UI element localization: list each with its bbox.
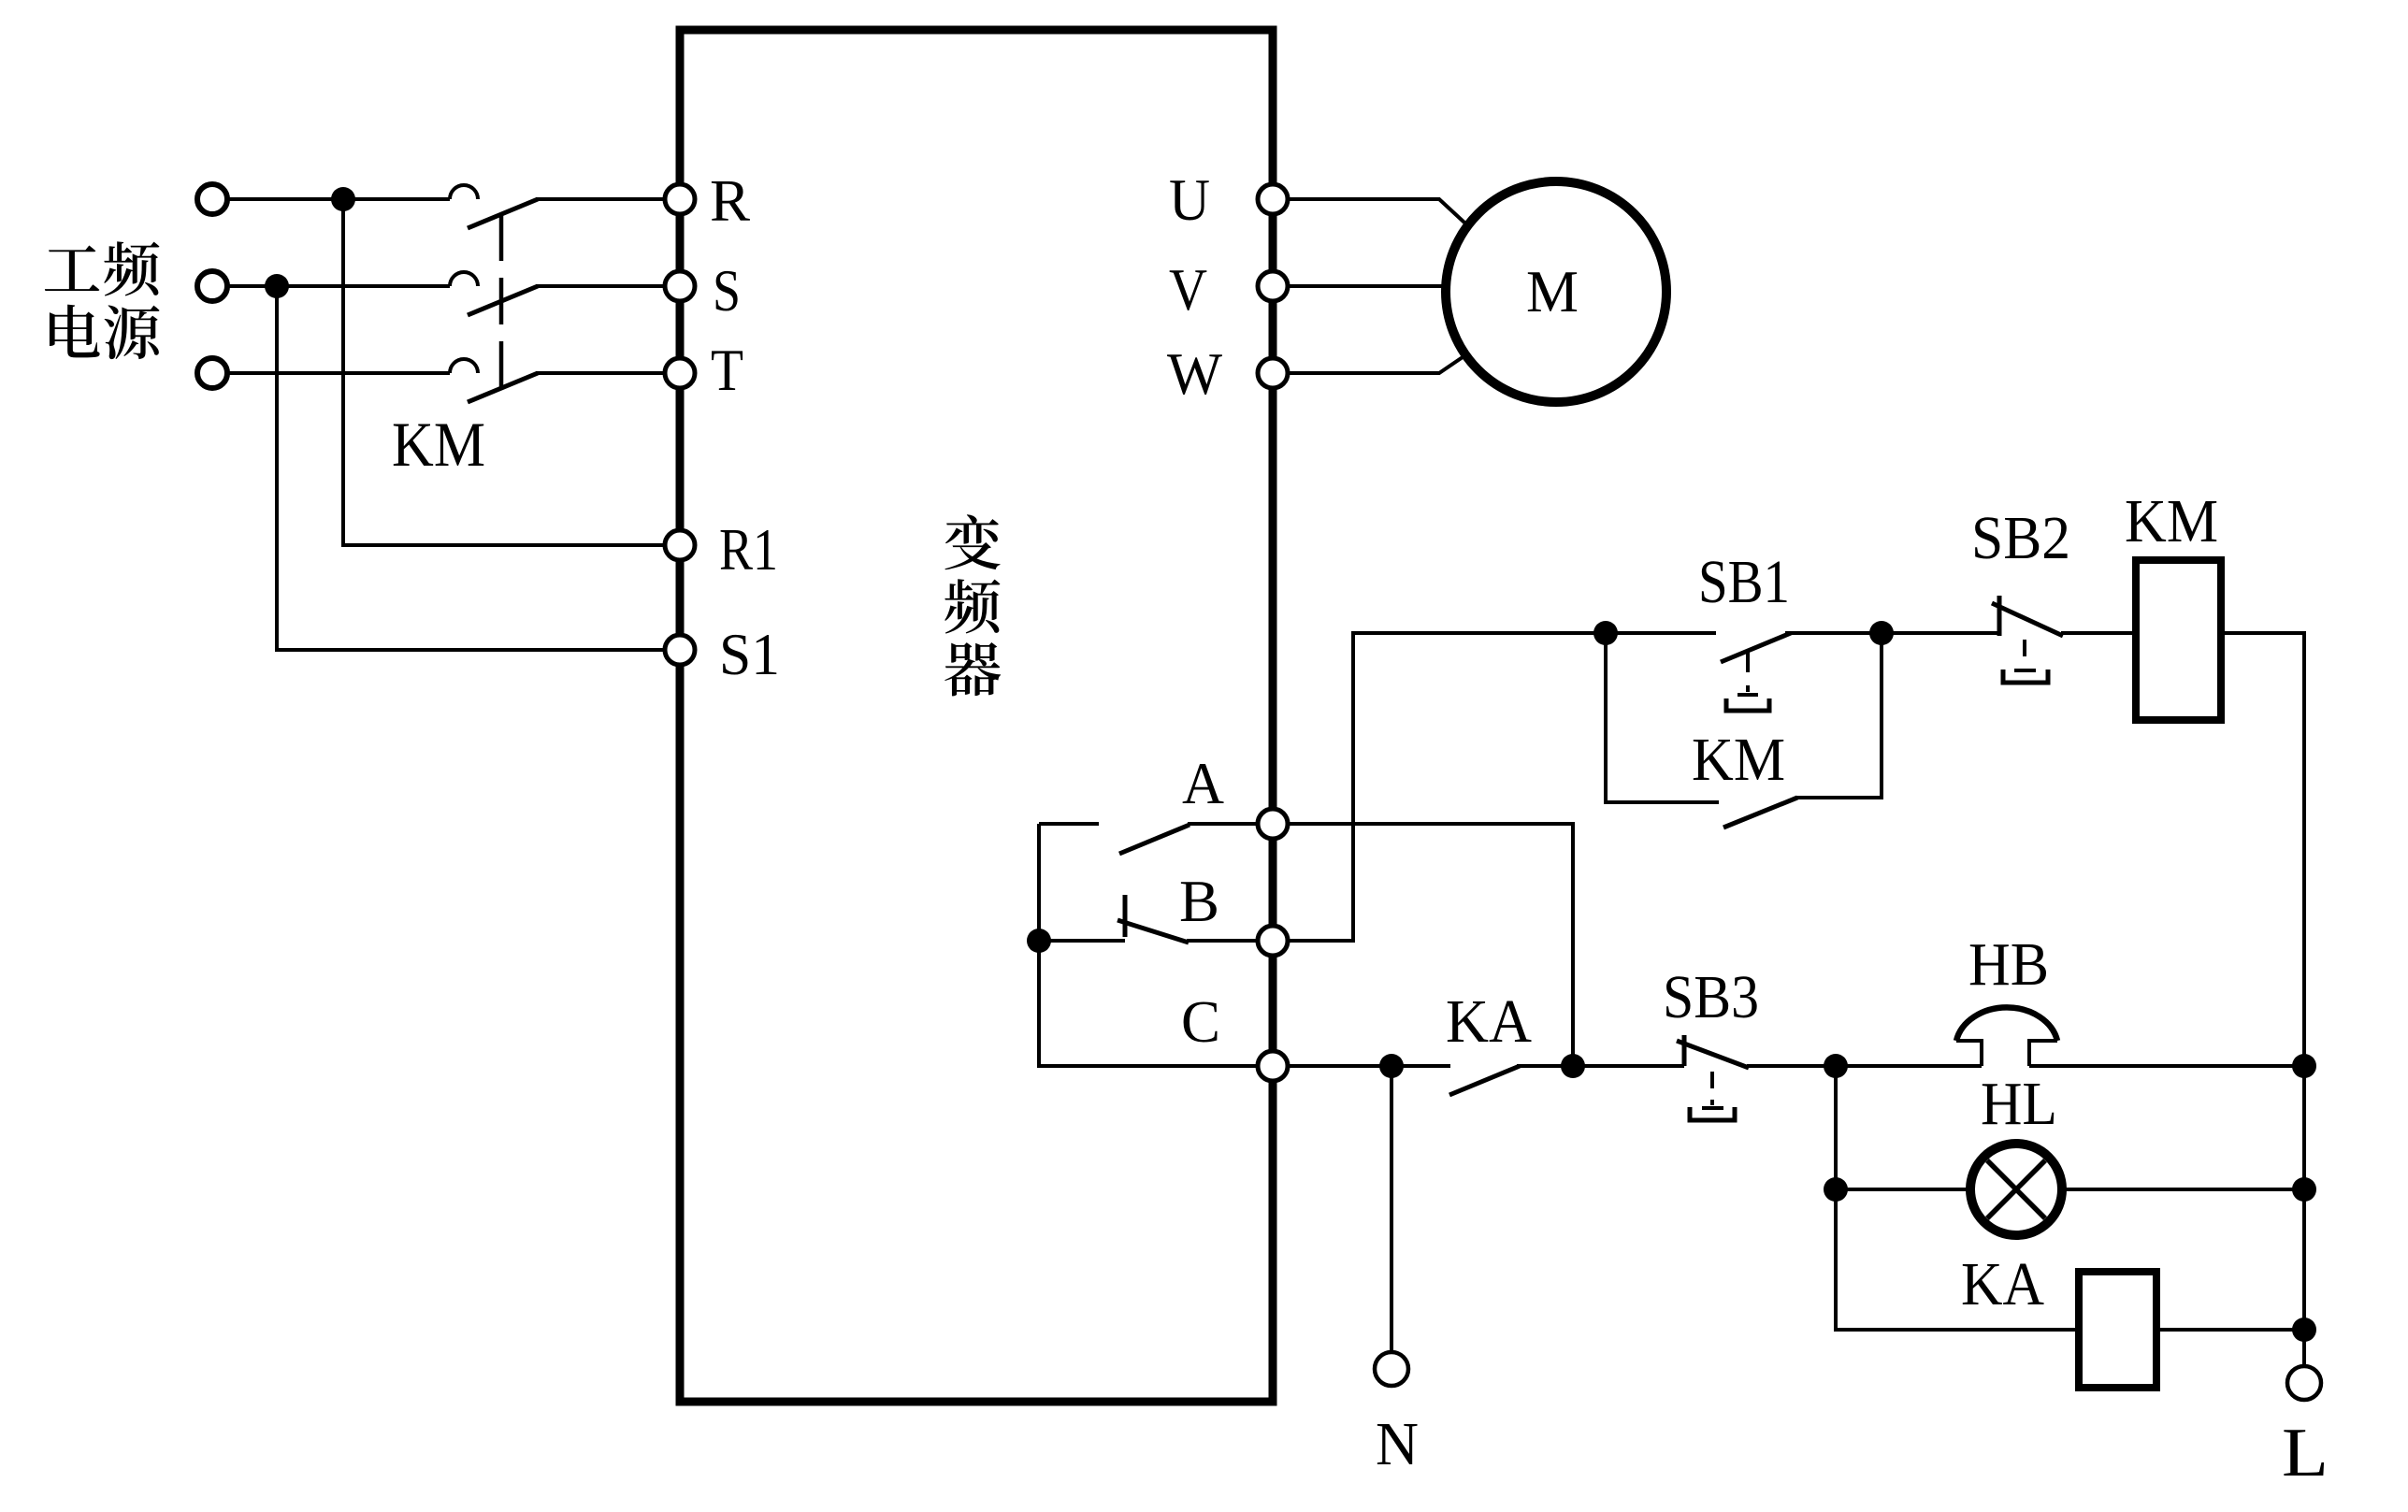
- svg-text:HL: HL: [1981, 1070, 2057, 1138]
- wire lamp to right rail: [2062, 1188, 2304, 1191]
- wire KA node to SB3: [1573, 1064, 1684, 1068]
- wire bell to right rail: [2029, 1064, 2304, 1068]
- wire blade to terminal A: [1188, 822, 1258, 826]
- svg-text:R: R: [710, 167, 750, 234]
- contactor KM linkage (dashed): [499, 214, 504, 404]
- wire KA contact to node: [1517, 1064, 1573, 1068]
- svg-text:U: U: [1169, 166, 1210, 233]
- node before SB1: [1593, 621, 1618, 645]
- svg-text:SB1: SB1: [1698, 548, 1790, 616]
- terminal A: [1258, 809, 1288, 839]
- svg-text:HB: HB: [1968, 930, 2049, 999]
- svg-text:B: B: [1179, 868, 1219, 934]
- svg-text:T: T: [711, 337, 743, 403]
- terminal S: [665, 271, 695, 301]
- wire N drop: [1390, 1066, 1393, 1352]
- switch B tick: [1123, 895, 1128, 937]
- coil KA: [2079, 1272, 2156, 1388]
- svg-text:KM: KM: [392, 409, 485, 480]
- svg-text:KM: KM: [1692, 726, 1785, 794]
- svg-text:SB3: SB3: [1663, 963, 1759, 1031]
- button SB1 operator (dashed plunger): [1746, 652, 1750, 692]
- wire SB2 to KM coil: [2061, 631, 2136, 635]
- contact KM self-hold blade: [1723, 798, 1797, 828]
- wire B terminal up to control line: [1288, 633, 1606, 941]
- switch A fixed side: [1039, 822, 1099, 826]
- svg-text:N: N: [1376, 1410, 1419, 1478]
- wire S-phase bypass to S1: [277, 286, 665, 650]
- wire A terminal down to KA node: [1288, 824, 1573, 1066]
- terminal S1: [665, 635, 695, 665]
- wire phase R to KM contact: [228, 197, 450, 201]
- wire phase T to KM contact: [228, 371, 450, 375]
- coil KM: [2136, 560, 2221, 720]
- contactor KM main pole 3 fixed contact: [450, 359, 478, 373]
- terminal L: [2287, 1366, 2321, 1400]
- svg-text:KA: KA: [1961, 1250, 2044, 1318]
- button SB2 tick: [1997, 596, 2002, 636]
- wire SB3 to bell: [1747, 1064, 1982, 1068]
- button SB2 blade: [1992, 603, 2063, 636]
- node rail-B junction: [1027, 929, 1051, 953]
- terminal W: [1258, 358, 1288, 388]
- contactor KM main pole 1 fixed contact: [450, 185, 478, 199]
- svg-text:V: V: [1169, 256, 1207, 323]
- svg-text:SB2: SB2: [1971, 504, 2070, 572]
- wire pole3 to terminal T: [536, 371, 665, 375]
- terminal V: [1258, 271, 1288, 301]
- node after SB1: [1869, 621, 1894, 645]
- svg-text:S1: S1: [719, 621, 780, 687]
- wire node to lamp: [1836, 1188, 1970, 1191]
- svg-text:A: A: [1182, 750, 1224, 816]
- switch B fixed side: [1039, 939, 1125, 943]
- wire KA coil to right rail: [2156, 1328, 2304, 1332]
- node C-KA junction (N tap): [1379, 1054, 1404, 1078]
- svg-text:M: M: [1526, 258, 1579, 324]
- wire R-phase bypass to R1: [343, 199, 665, 545]
- motor M: [1446, 181, 1666, 402]
- node lamp-drop junction: [1824, 1054, 1848, 1078]
- relay contact KA fixed side: [1391, 1064, 1450, 1068]
- inverter box 变频器: [680, 30, 1273, 1402]
- node A-drop junction: [1561, 1054, 1585, 1078]
- button SB1 operator tick: [1738, 693, 1758, 697]
- terminal B: [1258, 926, 1288, 956]
- terminal R: [665, 184, 695, 214]
- switch B blade: [1117, 920, 1189, 943]
- power source terminal 3: [197, 358, 227, 388]
- switch A blade: [1119, 825, 1190, 854]
- button SB2 operator tick: [2014, 669, 2036, 672]
- wire KM coil to right rail: [2221, 633, 2304, 1366]
- power source terminal 2: [197, 271, 227, 301]
- contact KM self-hold left drop: [1606, 633, 1719, 802]
- svg-text:S: S: [713, 257, 741, 324]
- node S-phase junction: [265, 274, 289, 298]
- left selector rail: [1039, 824, 1258, 1066]
- node R-phase junction: [331, 187, 355, 211]
- wire U to motor: [1288, 199, 1464, 223]
- terminal U: [1258, 184, 1288, 214]
- node lamp right: [2292, 1177, 2316, 1202]
- button SB3 blade: [1677, 1041, 1749, 1068]
- label 变频器 (vertical): [944, 514, 1001, 696]
- svg-text:KA: KA: [1446, 987, 1532, 1056]
- button SB1 blade: [1721, 633, 1791, 662]
- button SB3 operator tick: [1702, 1106, 1723, 1110]
- button SB3 operator (dashed plunger): [1710, 1072, 1714, 1105]
- wire pole1 to terminal R: [536, 197, 665, 201]
- svg-text:C: C: [1181, 988, 1220, 1055]
- bell HB: [1956, 1007, 2057, 1066]
- contact KM self-hold right side: [1795, 633, 1882, 798]
- node lamp left: [1824, 1177, 1848, 1202]
- button SB3 tick: [1682, 1035, 1687, 1066]
- contactor KM main pole 3 blade: [468, 373, 538, 402]
- svg-text:L: L: [2282, 1415, 2329, 1491]
- wire lamp branch drop: [1836, 1066, 2079, 1330]
- terminal T: [665, 358, 695, 388]
- svg-text:W: W: [1167, 340, 1223, 407]
- relay contact KA blade: [1449, 1066, 1520, 1095]
- node right rail HB row: [2292, 1054, 2316, 1078]
- wire blade to terminal B: [1187, 939, 1258, 943]
- wire node to SB1 fixed: [1606, 631, 1716, 635]
- terminal N: [1375, 1352, 1408, 1386]
- button SB3 operator bracket: [1690, 1107, 1735, 1120]
- wire phase S to KM contact: [228, 284, 450, 288]
- button SB2 operator bracket: [2003, 670, 2048, 683]
- button SB1 operator bracket: [1726, 698, 1769, 711]
- button SB2 operator (dashed plunger): [2023, 640, 2026, 668]
- lamp HL: [1970, 1144, 2062, 1235]
- contactor KM main pole 2 blade: [468, 286, 538, 315]
- wire V to motor: [1288, 284, 1447, 288]
- power source terminal 1: [197, 184, 227, 214]
- wire W to motor: [1288, 357, 1463, 373]
- terminal C: [1258, 1051, 1288, 1081]
- wire pole2 to terminal S: [536, 284, 665, 288]
- svg-text:KM: KM: [2125, 487, 2218, 555]
- node KA right: [2292, 1318, 2316, 1342]
- contactor KM main pole 2 fixed contact: [450, 272, 478, 286]
- contactor KM main pole 1 blade: [468, 199, 538, 228]
- label 工频电源: [45, 241, 160, 359]
- terminal R1: [665, 530, 695, 560]
- wire C terminal to KA contact: [1288, 1064, 1391, 1068]
- wire SB1 to SB2: [1785, 631, 1999, 635]
- svg-text:R1: R1: [719, 516, 778, 583]
